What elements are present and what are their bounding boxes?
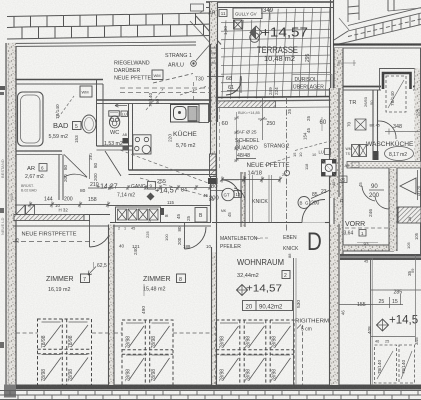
boxed 25 bbox=[339, 176, 347, 183]
label DURISOL UEBERLAGER bbox=[292, 75, 332, 91]
level mark +14.5 right bbox=[377, 319, 389, 331]
wall rungs near strang bbox=[211, 47, 217, 49]
dark fitting marks wc wall bbox=[123, 138, 129, 144]
skylight 78/140 right B bbox=[399, 345, 415, 383]
terrace door arc bbox=[226, 76, 241, 95]
skylight block zimmer8 bbox=[122, 320, 173, 385]
hatched wall band between waschkueche and vorraum bbox=[347, 162, 421, 169]
terrace right wall double line bbox=[330, 0, 332, 91]
dormer skylight 78/140 dashed bbox=[386, 76, 406, 112]
top-right vertical pipe bbox=[387, 0, 389, 11]
interior post lines bbox=[293, 258, 295, 385]
corridor dimension line bbox=[108, 187, 212, 189]
wc vent arrow bbox=[115, 105, 127, 107]
vorraum door arc bbox=[375, 196, 389, 209]
right lower room partition lines bbox=[370, 258, 372, 385]
bathtub bbox=[18, 92, 44, 146]
skylight block wohnraum bbox=[216, 320, 294, 385]
gully box GULLY GV bbox=[233, 8, 262, 19]
dashed leader to strang bbox=[153, 74, 193, 84]
drain board hatched bbox=[188, 108, 197, 120]
wall below vorraum bbox=[340, 254, 421, 260]
GT circle symbol bbox=[222, 188, 234, 200]
left margin annotations bbox=[0, 86, 5, 90]
zimmer8 door arc bbox=[184, 223, 186, 250]
zimmer7 door arc bbox=[89, 215, 91, 247]
bad sink oval bbox=[82, 115, 96, 133]
skylight block zimmer7 bbox=[38, 319, 92, 385]
terrace top wall bbox=[206, 1, 333, 3]
corridor top line bbox=[108, 205, 211, 207]
dim ticks above TR bbox=[337, 62, 356, 64]
left exterior wall (stippled) bbox=[6, 43, 16, 390]
hatched wall band left (firstpfette wall) bbox=[14, 215, 84, 221]
zimmer8 right wall bbox=[212, 252, 216, 385]
bad right wall bbox=[96, 80, 98, 147]
right roof ridge band bbox=[348, 8, 421, 43]
wc bottom wall bbox=[97, 145, 134, 147]
built-in wardrobe with X cells bbox=[116, 207, 161, 223]
dash-dot fold line bbox=[286, 98, 288, 232]
vertical dim chain right of kitchen wall bbox=[236, 112, 238, 162]
level dashed line zimmer7 bbox=[16, 332, 38, 334]
kitchen/entry right wall bbox=[210, 44, 212, 223]
paper grain overlay bbox=[0, 0, 1, 1]
small vent box on ridge bbox=[191, 4, 204, 11]
bottom exterior wall bbox=[16, 385, 421, 390]
bottom brick band bbox=[0, 391, 421, 400]
dashed pfette lines bbox=[13, 241, 95, 243]
dashed leaders across corridor bbox=[140, 178, 214, 198]
right block left wall (stippled) bbox=[334, 48, 343, 254]
top wall of right block bbox=[333, 43, 421, 45]
ar door leaf diagonal bbox=[64, 155, 87, 178]
double line under brick band bbox=[7, 42, 196, 44]
entry door arc bbox=[222, 180, 239, 197]
vorraum right wall (stippled) bbox=[389, 168, 397, 251]
hatched shaft box bbox=[398, 207, 421, 223]
ar bad divider wall bbox=[16, 150, 62, 152]
right exterior wall of waschkueche bbox=[415, 69, 421, 161]
bad top wall bbox=[16, 79, 103, 81]
chimney flue hatched block bbox=[210, 154, 217, 177]
label LU box bbox=[121, 111, 128, 117]
TR right wall bbox=[372, 90, 374, 160]
wc kueche top wall bbox=[97, 99, 212, 101]
ar right wall bbox=[58, 155, 60, 201]
washer dryer boxes bbox=[352, 145, 360, 157]
section marker triangle bbox=[400, 178, 416, 194]
wc door leaf diagonal bbox=[105, 151, 121, 176]
level mark +14.57 wohnraum bbox=[237, 285, 248, 296]
pillar double lines bbox=[249, 175, 251, 222]
terrace tile grid bbox=[0, 0, 1, 1]
kitchen bottom wall bbox=[129, 169, 217, 171]
waschkueche north wall with dormer bay bbox=[343, 86, 381, 88]
area oval 8.17 m2 bbox=[385, 147, 414, 161]
corridor bottom lines bbox=[110, 222, 211, 224]
terrace bottom hatched sill bbox=[218, 101, 276, 108]
box 11 bbox=[219, 10, 227, 17]
dark wall foot block bbox=[208, 178, 218, 184]
boxed 12 bbox=[234, 191, 242, 198]
level mark +14.57 terrace bbox=[250, 26, 262, 39]
door arc waschkueche bbox=[362, 186, 375, 201]
circle BG symbol bbox=[298, 197, 310, 209]
roof hip diagonals right bbox=[334, 31, 348, 40]
zimmer7 zimmer8 divider wall bbox=[109, 225, 114, 386]
washer box WM in bad bbox=[80, 86, 92, 97]
stove with plates bbox=[133, 135, 151, 154]
small boxes with slash bbox=[16, 205, 25, 215]
TR door arc bbox=[378, 121, 396, 139]
wc toilet bbox=[109, 111, 120, 116]
shaft box with corner pads bbox=[322, 160, 337, 177]
kitchen sink counter bbox=[171, 105, 200, 123]
wall line below entry bbox=[212, 222, 302, 224]
ridge vertical strip bbox=[348, 0, 359, 22]
roof hip diagonals at band end bbox=[196, 16, 221, 45]
skylight 78/140 right A bbox=[375, 345, 397, 383]
wm box above kitchen wall bbox=[152, 70, 163, 80]
rotated dims next to wardrobe bbox=[160, 208, 164, 215]
wc kueche divider wall bbox=[128, 104, 130, 171]
terrace left wall (stippled) bbox=[210, 2, 218, 122]
dormer bay walls bbox=[383, 73, 411, 89]
dim line with ticks bbox=[222, 179, 280, 181]
vorraum bottom wall (stippled) bbox=[343, 245, 394, 251]
door arc into wohnraum bbox=[302, 200, 325, 223]
area box 20 / 90.42m2 bbox=[243, 301, 293, 311]
top exterior brick wall band bbox=[7, 13, 211, 39]
gully drain square bbox=[234, 20, 243, 29]
entry right wall bbox=[242, 172, 245, 227]
riegelwand dashed over kitchen bbox=[120, 87, 211, 89]
terrace bottom wall bbox=[210, 97, 334, 98]
B box bbox=[195, 208, 207, 223]
wohnraum right wall (stippled) bbox=[330, 88, 340, 198]
